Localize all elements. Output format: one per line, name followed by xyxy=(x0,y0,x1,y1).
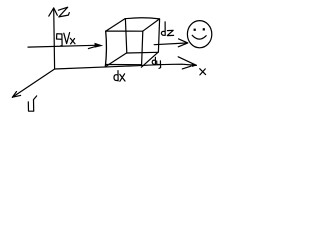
label rho xyxy=(57,34,63,46)
cube back left edge xyxy=(125,19,126,53)
z axis arrowhead xyxy=(49,8,58,16)
smiley mouth xyxy=(192,35,206,39)
cube front bottom edge xyxy=(106,64,141,66)
cube back top edge xyxy=(125,18,159,19)
cube diagonal top-right xyxy=(143,19,160,31)
cube front right edge xyxy=(142,31,143,64)
cube diagonal bottom-right xyxy=(141,52,158,67)
cube back bottom edge xyxy=(127,51,159,54)
smiley arrowhead xyxy=(178,39,188,47)
label Z xyxy=(58,7,69,17)
z axis xyxy=(53,8,56,69)
y axis arrowhead xyxy=(12,92,20,98)
label dx xyxy=(114,71,125,82)
label dy xyxy=(152,57,160,68)
cube front top edge xyxy=(106,30,143,32)
rho Vx flux line xyxy=(28,45,95,47)
cube back right edge xyxy=(158,19,159,52)
label y (axis) xyxy=(28,96,36,111)
label dz xyxy=(161,22,173,36)
smiley face xyxy=(187,21,211,48)
label V xyxy=(64,33,70,44)
cube diagonal bottom-left xyxy=(105,53,126,67)
y axis xyxy=(12,69,54,97)
rho Vx arrowhead xyxy=(88,43,103,49)
arrow to smiley xyxy=(154,43,186,45)
x axis (baseline) xyxy=(55,64,197,69)
label x subscript xyxy=(70,38,75,44)
cube front left edge xyxy=(105,31,106,67)
cube diagonal top-left xyxy=(106,19,126,32)
smiley right eye xyxy=(203,28,205,30)
x axis arrowhead xyxy=(178,57,196,69)
smiley left eye xyxy=(194,29,196,31)
label x (axis) xyxy=(200,69,206,75)
